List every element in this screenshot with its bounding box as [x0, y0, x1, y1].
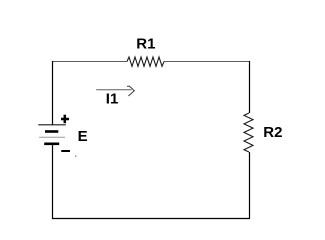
wire left rail upper: [52, 61, 54, 125]
svg-text:R1: R1: [136, 36, 155, 53]
wire right rail upper: [249, 61, 251, 113]
battery E plate 3 (long positive, faint): [39, 136, 65, 138]
svg-text:R2: R2: [263, 124, 282, 141]
wire bottom rail: [52, 218, 250, 220]
wire left rail lower: [52, 144, 54, 219]
minus sign: [61, 150, 70, 152]
resistor R1: [127, 57, 164, 66]
resistor R2: [244, 113, 253, 152]
battery E plate 4 (short thick negative): [44, 143, 59, 146]
svg-text:I1: I1: [106, 91, 119, 108]
battery E plate 2 (short thick negative): [45, 130, 58, 133]
current arrow I1 line: [96, 89, 131, 91]
plus sign: [61, 115, 69, 124]
wire top rail right segment: [164, 61, 250, 63]
svg-text:E: E: [78, 128, 88, 145]
current arrow I1 head: [127, 86, 134, 96]
wire top rail left segment: [53, 61, 128, 63]
battery E plate 1 (long positive): [38, 124, 66, 126]
wire right rail lower: [249, 152, 251, 219]
stray dot: [75, 156, 76, 157]
